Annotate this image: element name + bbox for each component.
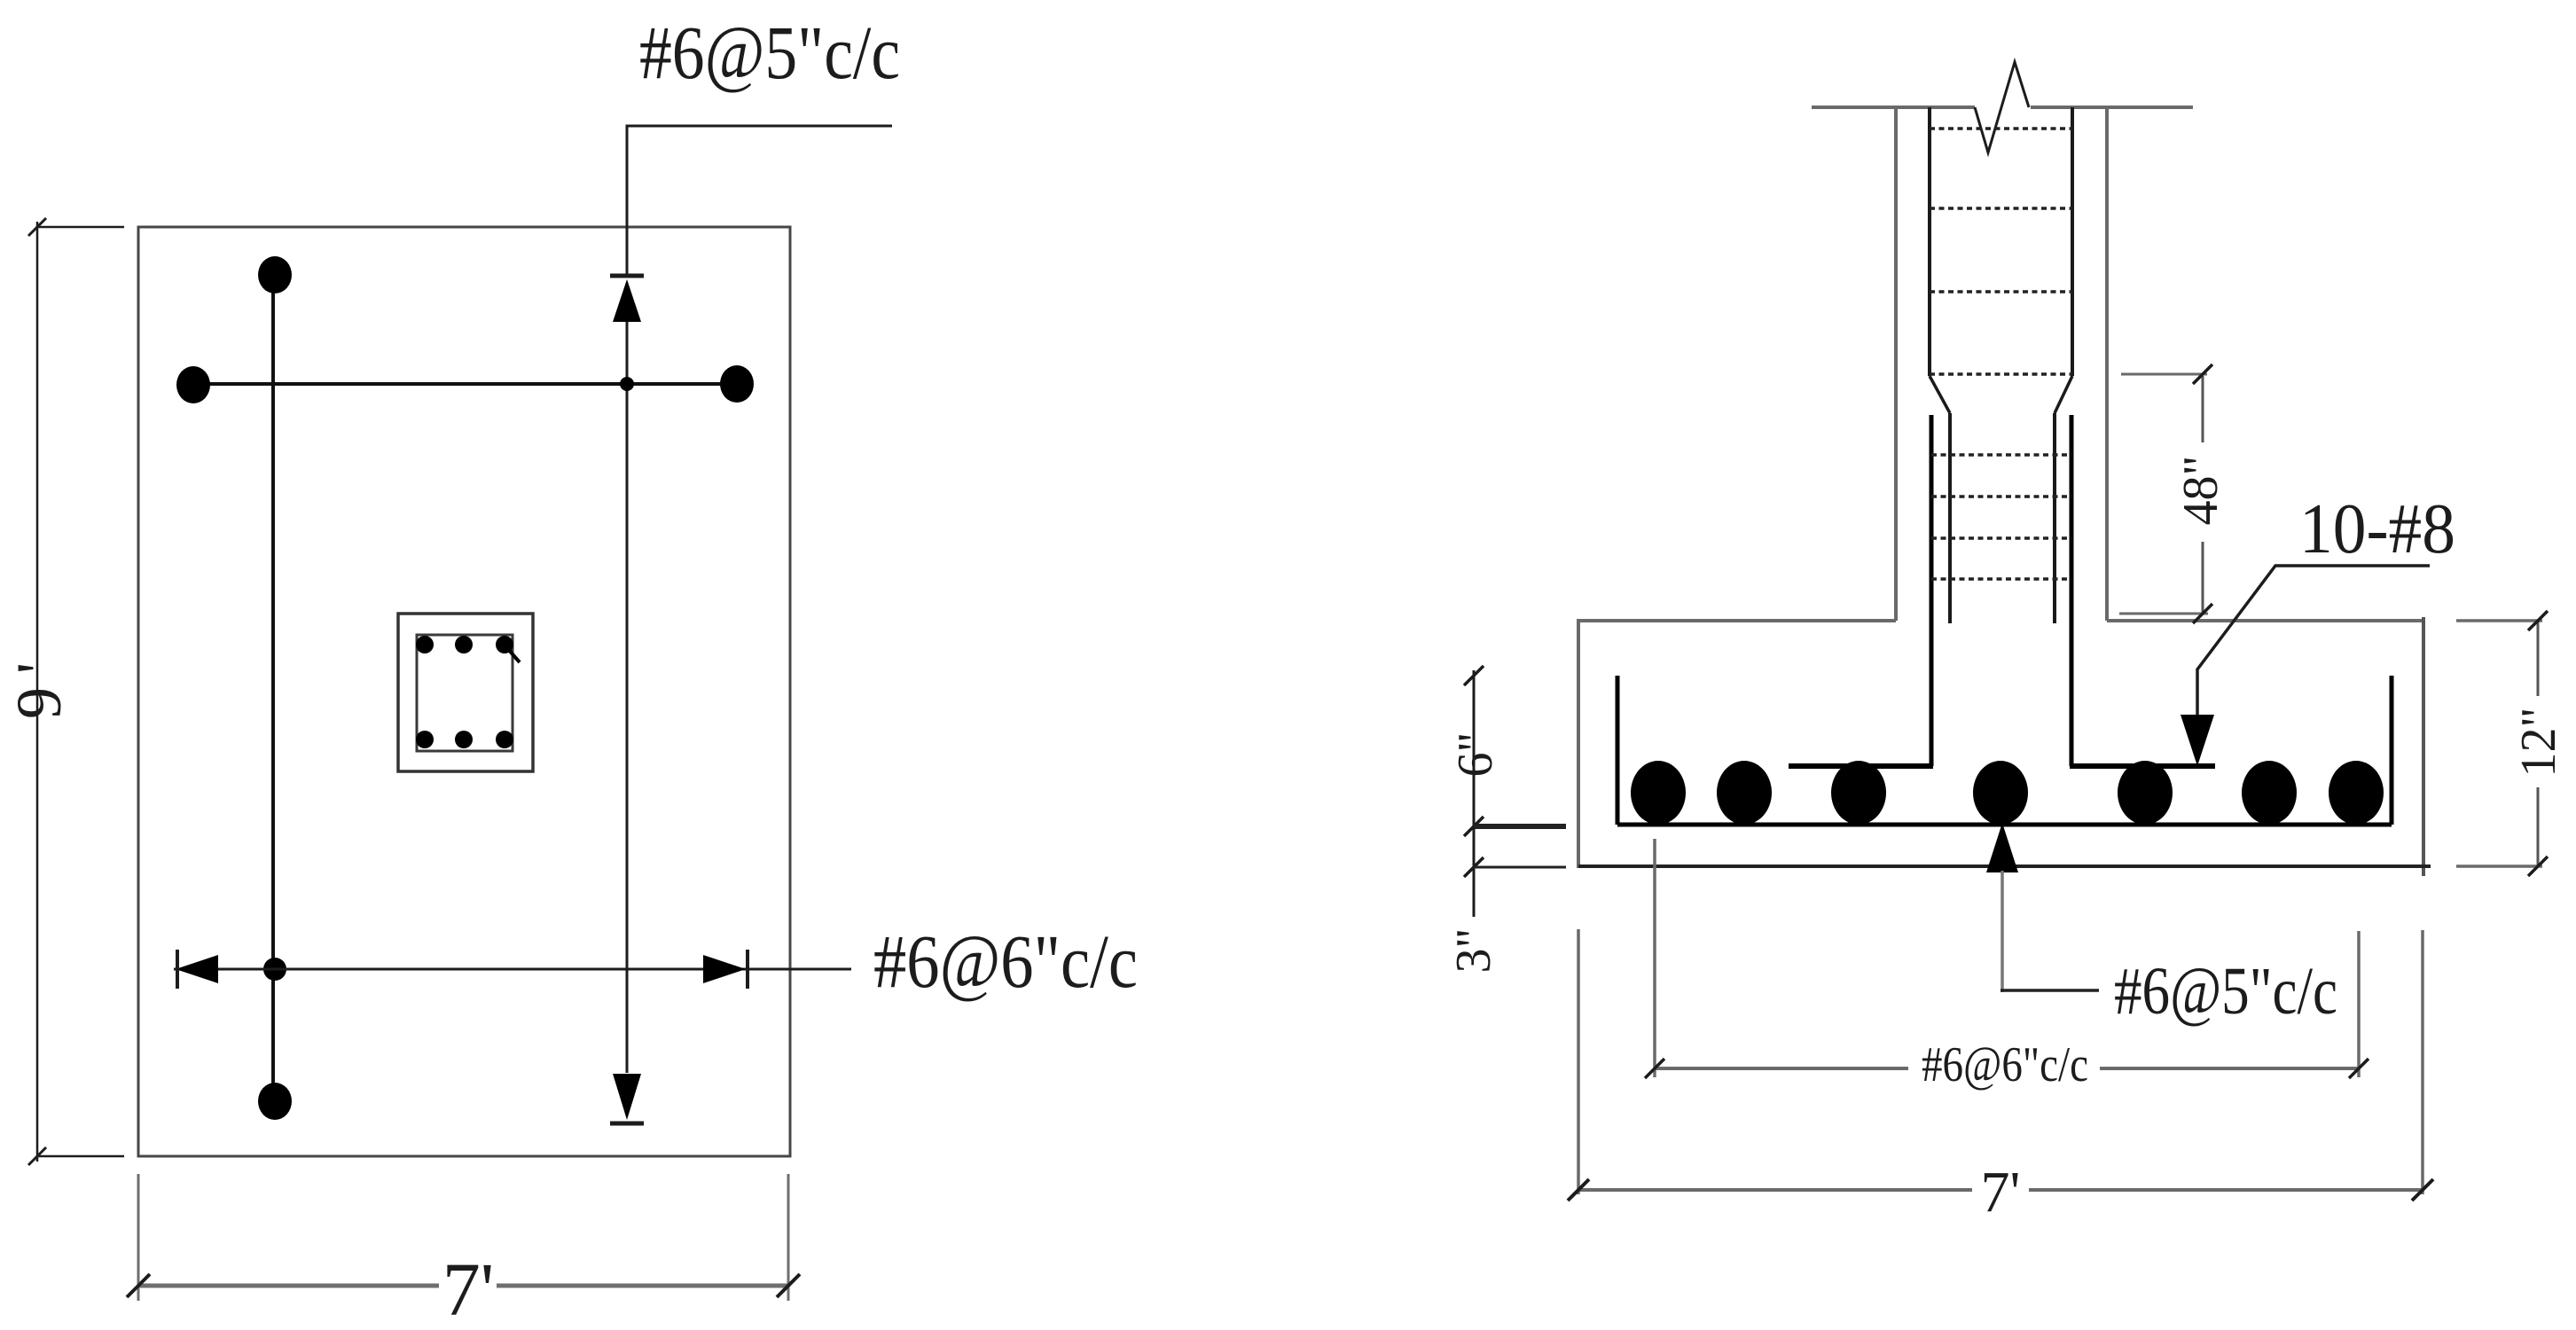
left end tick	[176, 950, 179, 989]
svg-text:7': 7'	[442, 1247, 495, 1326]
#6@6 right extension line	[2357, 931, 2361, 1077]
footing top edge left segment	[1578, 619, 1896, 622]
junction dot on bottom arrow line	[263, 958, 286, 981]
column bar dot 1	[416, 636, 434, 653]
7' left extension line	[137, 1174, 140, 1301]
leader from #6@5"c/c label	[627, 126, 892, 276]
leader line from #6@5"c/c	[2001, 871, 2004, 992]
svg-text:7': 7'	[1981, 1160, 2021, 1224]
48" bottom slash tick	[2193, 604, 2212, 623]
6" / 3" dimension line	[1473, 670, 1476, 917]
column section square (plan)	[398, 614, 533, 771]
svg-text:6": 6"	[1448, 732, 1503, 778]
bottom bar dot 4	[1973, 761, 2028, 825]
#6@6 left slash tick	[1645, 1059, 1664, 1078]
leader arrow (up) to bottom bars	[1986, 823, 2018, 872]
svg-text:10-#8: 10-#8	[2299, 490, 2455, 568]
horizontal rebar line (plan)	[193, 382, 737, 386]
column bar dot 5	[455, 731, 473, 748]
7' right extension line (section)	[2421, 930, 2424, 1194]
footing top edge right segment	[2107, 619, 2423, 622]
7' right extension line	[787, 1174, 790, 1301]
left arrowhead	[176, 955, 218, 983]
column bar dot 6	[496, 731, 513, 748]
svg-text:9': 9'	[4, 662, 74, 719]
junction dot on dimension line	[620, 377, 634, 391]
ground line right segment	[2031, 106, 2193, 109]
7' left slash tick (section)	[1568, 1179, 1589, 1201]
bottom bar dot 3	[1831, 761, 1886, 825]
48" bottom extension line	[2119, 613, 2208, 615]
dowel hook right	[2070, 763, 2215, 769]
svg-text:#6@6"c/c: #6@6"c/c	[1922, 1037, 2088, 1092]
rebar end dot left	[176, 366, 210, 403]
column tie (dashed) 1	[1930, 127, 2072, 130]
column bar left (lower, lapped)	[1948, 413, 1952, 623]
svg-text:#6@6"c/c: #6@6"c/c	[873, 919, 1138, 1004]
9' bottom slash tick	[28, 1147, 46, 1165]
#6@6"c/c dimension line (section)	[1655, 1067, 1908, 1070]
ground line left segment	[1812, 106, 1975, 109]
12" bottom slash tick	[2528, 857, 2548, 876]
7' right slash tick (section)	[2412, 1179, 2433, 1201]
12" bottom extension line	[2456, 864, 2542, 868]
column bar dot 2	[455, 636, 473, 653]
dowel bar right	[2070, 415, 2074, 766]
column bar right (upper)	[2071, 107, 2074, 376]
column tie (dashed) 4	[1930, 372, 2072, 376]
vertical dimension line inside plan	[626, 322, 629, 1073]
column tie (dashed) 2	[1930, 207, 2072, 210]
svg-text:#6@5"c/c: #6@5"c/c	[639, 10, 900, 95]
tick at footing bottom level	[1464, 857, 1484, 877]
lap tie (dashed) 4	[1931, 577, 2071, 581]
svg-text:48": 48"	[2173, 456, 2228, 526]
dowel hook left	[1789, 763, 1933, 769]
column tie (inner square)	[417, 635, 513, 751]
7' left extension line (section)	[1577, 929, 1580, 1194]
svg-text:#6@5"c/c: #6@5"c/c	[2114, 954, 2337, 1029]
7' left slash tick	[127, 1274, 150, 1297]
#6@6 left extension line	[1653, 839, 1656, 1077]
rebar end dot right	[720, 365, 754, 403]
48" top extension line	[2121, 373, 2207, 376]
lap tie (dashed) 1	[1931, 453, 2071, 457]
bottom bar dot 6	[2242, 761, 2297, 825]
column bar dot 3	[496, 636, 513, 653]
vertical rebar line (plan)	[271, 275, 275, 1101]
48" dimension line	[2202, 376, 2204, 442]
right end tick	[746, 950, 749, 989]
footing left edge	[1577, 619, 1580, 868]
9' top slash tick	[28, 218, 46, 236]
rebar end dot bottom	[258, 1083, 292, 1120]
column bar taper right	[2055, 376, 2072, 413]
leader from 10-#8	[2197, 566, 2430, 715]
#6@6 right slash tick	[2349, 1059, 2369, 1078]
top arrow (up) of vertical dimension	[610, 274, 644, 278]
column wall left	[1894, 107, 1898, 621]
7' dimension line (section)	[1578, 1188, 1972, 1192]
9' dimension line	[36, 222, 39, 1162]
7' dimension line (left drawing)	[138, 1284, 439, 1288]
svg-text:3": 3"	[1446, 928, 1501, 974]
12" dimension line	[2537, 621, 2540, 696]
rebar end dot top	[258, 256, 292, 293]
bottom bar dot 7	[2329, 761, 2384, 825]
9' top extension line	[37, 226, 124, 229]
tie hook mark	[507, 648, 520, 662]
leader arrowhead (down)	[2181, 715, 2214, 766]
column wall right	[2105, 107, 2109, 621]
column bar right (lower, lapped)	[2053, 413, 2056, 623]
bottom bar dot 5	[2118, 761, 2173, 825]
tick at bar line level	[1464, 817, 1484, 836]
bottom arrow (down) of vertical dimension	[613, 1074, 641, 1120]
12" top slash tick	[2528, 611, 2548, 630]
lap tie (dashed) 3	[1931, 536, 2071, 540]
48" top slash tick	[2193, 364, 2212, 384]
footing right edge	[2422, 617, 2425, 876]
upturned bar hook left	[1616, 676, 1620, 825]
column tie (dashed) 3	[1930, 290, 2072, 293]
bottom rebar line	[1617, 823, 2392, 827]
bottom bar dot 2	[1717, 761, 1772, 825]
horizontal double-arrow dimension with leader to #6@6"c/c	[174, 968, 851, 971]
extension line at bar level	[1474, 824, 1566, 829]
upturned bar hook right	[2390, 676, 2394, 825]
6" top slash tick	[1464, 666, 1484, 685]
svg-text:12": 12"	[2511, 708, 2566, 778]
column bar left (upper)	[1928, 107, 1931, 376]
lap tie (dashed) 2	[1931, 495, 2071, 498]
column bar dot 4	[416, 731, 434, 748]
break symbol zigzag	[1975, 62, 2029, 153]
footing outline (plan)	[138, 227, 790, 1156]
extension line at footing bottom level	[1474, 866, 1566, 869]
12" top extension line	[2456, 619, 2542, 622]
9' bottom extension line	[37, 1155, 124, 1158]
bottom bar dot 1	[1631, 761, 1686, 825]
column bar taper left	[1930, 376, 1950, 413]
7' right slash tick	[777, 1274, 800, 1297]
footing bottom edge	[1578, 864, 2431, 868]
dowel bar left	[1930, 415, 1934, 766]
right arrowhead	[703, 955, 746, 983]
